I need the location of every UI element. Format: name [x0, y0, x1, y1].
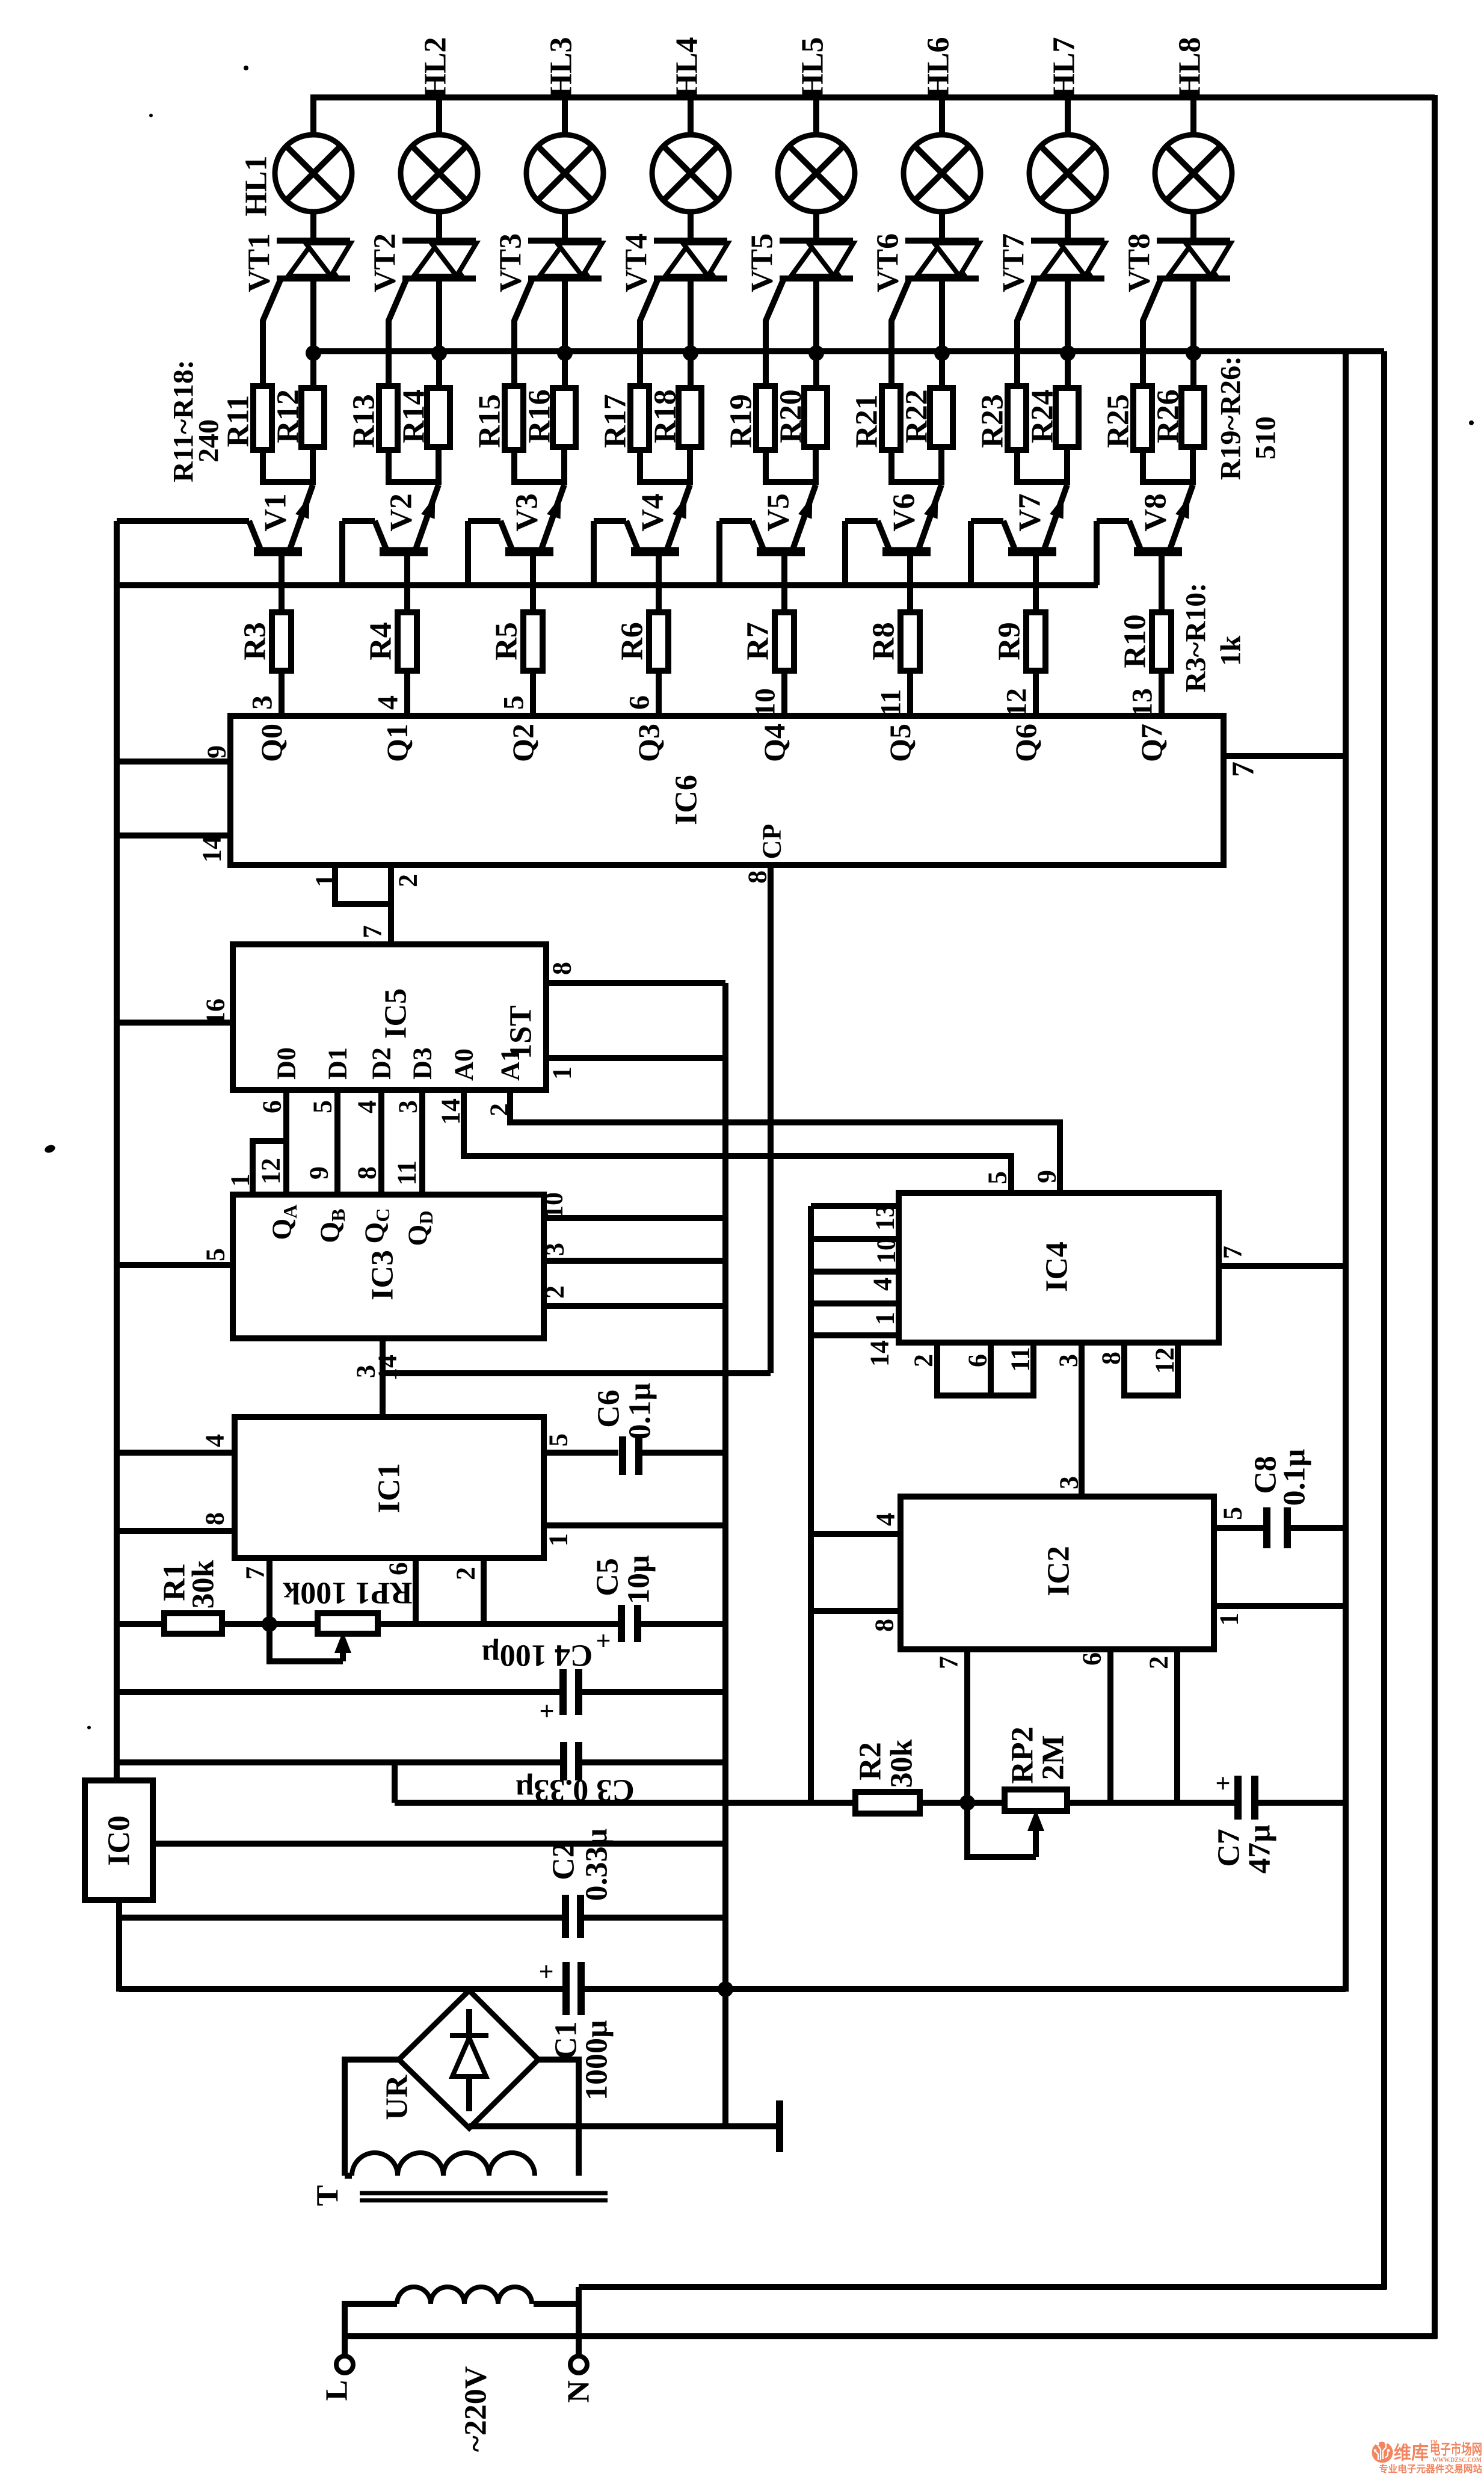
wire IC1 pin5 line — [544, 1450, 618, 1456]
svg-text:12: 12 — [1001, 688, 1033, 717]
wire lamp to triac VT5 — [813, 212, 819, 241]
wire IC4 left stub y2114 — [811, 1269, 899, 1275]
lamp HL7 — [1029, 135, 1106, 212]
wire R22 bottom — [938, 447, 944, 485]
svg-text:4: 4 — [200, 1434, 230, 1447]
wire R26 bottom — [1190, 447, 1196, 485]
svg-text:R3~R10:: R3~R10: — [1180, 583, 1212, 692]
svg-text:R22: R22 — [900, 389, 934, 443]
wire R10 to IC6 pin 13 — [1159, 671, 1165, 717]
svg-text:D1: D1 — [323, 1047, 353, 1080]
wire lamp to triac VT1 — [310, 212, 316, 241]
wire bottom L line — [342, 2333, 1437, 2339]
transformer T primary — [397, 2287, 532, 2304]
wire IC5 D2-pin4 to IC3 — [378, 1090, 384, 1196]
resistor R8 — [901, 612, 920, 671]
speck 1 — [43, 1143, 56, 1154]
watermark logo — [1372, 2441, 1393, 2463]
svg-text:0.1µ: 0.1µ — [623, 1382, 657, 1439]
svg-text:V8: V8 — [1139, 493, 1173, 532]
wire bridge right to secondary — [538, 2060, 579, 2176]
svg-text:VT6: VT6 — [871, 233, 905, 292]
wire C3 to rail — [579, 1759, 725, 1765]
wire IC1 pin4 line — [117, 1450, 235, 1456]
svg-text:R9: R9 — [993, 622, 1027, 660]
svg-text:3: 3 — [540, 1243, 570, 1256]
svg-text:V2: V2 — [384, 493, 419, 532]
svg-text:R23: R23 — [976, 394, 1010, 448]
wire IC5 A1 to IC4 pin9 — [510, 1090, 1060, 1194]
resistor R15 — [505, 386, 523, 450]
wire V1 collector — [117, 518, 249, 524]
svg-text:9: 9 — [304, 1166, 334, 1180]
triac VT5 — [780, 238, 853, 244]
svg-text:RP1 100k: RP1 100k — [283, 1576, 412, 1610]
transistor V1 — [290, 485, 313, 549]
svg-text:C5: C5 — [591, 1558, 625, 1596]
svg-text:TM: TM — [1430, 2439, 1438, 2445]
wire RP2 to C7 — [1067, 1800, 1238, 1806]
svg-text:R20: R20 — [774, 389, 808, 443]
svg-text:R10: R10 — [1118, 614, 1153, 668]
wire IC5 D3-pin3 to IC3 — [419, 1090, 425, 1196]
bridge rectifier UR — [399, 1990, 538, 2128]
wire IC2 pin1 line — [1214, 1603, 1346, 1609]
svg-text:14: 14 — [197, 836, 227, 863]
wire triac cathode bus y584 — [310, 348, 1384, 354]
wire C4 line left — [117, 1689, 563, 1695]
svg-text:2M: 2M — [1036, 1735, 1071, 1780]
wire R1 line — [117, 1621, 164, 1627]
transformer T core — [360, 2191, 608, 2196]
resistor R18 — [679, 388, 701, 447]
wire lamp HL2 stem — [436, 97, 442, 135]
triac VT2 — [402, 238, 476, 244]
wire lamp HL8 stem — [1190, 97, 1196, 135]
wire V7 base — [1033, 552, 1039, 614]
svg-text:8: 8 — [353, 1166, 382, 1180]
svg-text:R18: R18 — [648, 389, 683, 443]
wire right bus1 vertical — [1343, 351, 1349, 1992]
svg-text:IC0: IC0 — [102, 1815, 137, 1866]
svg-text:R14: R14 — [397, 389, 431, 443]
wire lamp to triac VT3 — [562, 212, 568, 241]
wire triac VT1 gate — [263, 277, 282, 389]
wire lamp to triac VT2 — [436, 212, 442, 241]
svg-text:6: 6 — [384, 1562, 413, 1575]
svg-text:5: 5 — [498, 695, 530, 710]
capacitor C8 — [1263, 1507, 1270, 1548]
wire V4 collector — [594, 518, 626, 524]
svg-text:R6: R6 — [615, 622, 650, 660]
speck 4 — [87, 1726, 91, 1729]
svg-text:HL2: HL2 — [419, 37, 453, 97]
svg-text:C7: C7 — [1212, 1829, 1246, 1867]
wire triac VT8 to node — [1190, 278, 1196, 388]
transistor V5 — [793, 485, 816, 549]
IC IC5 box — [233, 944, 546, 1090]
wire IC1 pin6 down — [413, 1558, 419, 1624]
triac VT6 — [905, 238, 979, 244]
wire IC3 pin3 line — [544, 1258, 725, 1264]
svg-text:VT2: VT2 — [368, 233, 402, 292]
svg-text:7: 7 — [358, 925, 387, 938]
svg-text:C4 100µ: C4 100µ — [482, 1639, 593, 1673]
svg-text:Q5: Q5 — [883, 724, 917, 762]
wire lamp HL1 stem — [310, 97, 316, 135]
node branch 8 junction — [1186, 345, 1201, 361]
resistor R2 — [855, 1792, 920, 1814]
wire triac VT7 to node — [1065, 278, 1071, 388]
svg-text:IC2: IC2 — [1042, 1546, 1076, 1596]
svg-text:D2: D2 — [367, 1047, 396, 1080]
svg-text:N: N — [562, 2380, 596, 2403]
wire IC5 pin16 line — [117, 1020, 233, 1026]
svg-text:IC1: IC1 — [372, 1463, 407, 1513]
wire IC2 pin2 down — [1174, 1649, 1180, 1803]
svg-text:8: 8 — [547, 962, 577, 975]
svg-text:VT5: VT5 — [745, 233, 780, 292]
svg-text:D3: D3 — [408, 1047, 437, 1080]
svg-text:R8: R8 — [867, 622, 901, 660]
svg-text:0.1µ: 0.1µ — [1278, 1448, 1312, 1506]
speck 3 — [149, 114, 153, 117]
svg-text:D0: D0 — [272, 1047, 301, 1080]
svg-text:30k: 30k — [186, 1560, 221, 1608]
node junction RP2 — [959, 1795, 975, 1811]
svg-text:L: L — [320, 2380, 354, 2401]
wire V8 collector — [1097, 518, 1129, 524]
svg-text:V4: V4 — [636, 493, 670, 532]
svg-text:A0: A0 — [449, 1048, 479, 1081]
resistor R6 — [649, 612, 668, 671]
wire triac VT5 to node — [813, 278, 819, 388]
wire IC6 pin2 to IC5 pin7 — [388, 865, 394, 946]
wire RP1 to C5 — [378, 1621, 621, 1627]
resistor R1 — [164, 1613, 222, 1634]
wire IC4 pin7 line — [1219, 1263, 1346, 1269]
watermark title — [1394, 2439, 1482, 2463]
wire R1 to RP1 — [222, 1621, 318, 1627]
wire IC6 pin9 line — [117, 759, 230, 765]
svg-text:V7: V7 — [1013, 493, 1047, 532]
lamp HL4 — [652, 135, 729, 212]
transistor V4 — [667, 485, 690, 549]
resistor R7 — [775, 612, 794, 671]
wire triac VT5 gate — [766, 277, 784, 389]
wire collector bus y973 — [117, 582, 1098, 588]
svg-text:R7: R7 — [741, 622, 775, 660]
svg-text:Q2: Q2 — [506, 724, 540, 762]
wire triac VT1 to node — [310, 278, 316, 388]
svg-text:R15: R15 — [473, 394, 507, 448]
wire R6 to IC6 pin 6 — [656, 671, 662, 717]
wire lamp to triac VT6 — [939, 212, 945, 241]
svg-text:3: 3 — [351, 1365, 381, 1378]
svg-text:WWW.DZSC.COM: WWW.DZSC.COM — [1432, 2457, 1482, 2464]
svg-text:R25: R25 — [1101, 394, 1136, 448]
node junction IC1 pin7 RP1 — [262, 1616, 277, 1632]
triac VT4 — [654, 238, 727, 244]
wire IC5 pin1 line — [546, 1055, 725, 1061]
wire CP line to IC1 pin3 — [383, 1370, 771, 1376]
node branch 1 junction — [306, 345, 321, 361]
wire IC3 pin2 line — [544, 1303, 725, 1309]
wire C3 line left — [117, 1759, 564, 1765]
node branch 3 junction — [557, 345, 573, 361]
node junction +V rail x A — [718, 1981, 733, 1997]
wire IC4 left stub y2220 — [811, 1332, 899, 1338]
wire V6 base — [907, 552, 913, 614]
IC IC4 box — [899, 1193, 1219, 1343]
svg-text:HL6: HL6 — [922, 37, 956, 97]
svg-text:1: 1 — [310, 874, 340, 887]
resistor R23 — [1008, 386, 1026, 450]
svg-text:VT1: VT1 — [242, 233, 277, 292]
wire R16 bottom — [561, 447, 567, 485]
svg-text:V6: V6 — [887, 493, 922, 532]
svg-text:7: 7 — [1218, 1246, 1248, 1259]
wire lamp to triac VT7 — [1065, 212, 1071, 241]
potentiometer RP2 — [1005, 1789, 1067, 1811]
resistor R9 — [1026, 612, 1045, 671]
transistor V3 — [541, 485, 564, 549]
svg-text:R21: R21 — [850, 394, 884, 448]
svg-text:1k: 1k — [1215, 635, 1247, 666]
transistor V6 — [919, 485, 941, 549]
wire R18 bottom — [687, 447, 693, 485]
triac VT7 — [1031, 238, 1104, 244]
svg-text:7: 7 — [1227, 762, 1261, 777]
svg-text:R16: R16 — [523, 389, 557, 443]
wire C8 to bus — [1287, 1525, 1346, 1531]
svg-text:11: 11 — [875, 689, 907, 716]
resistor R21 — [882, 386, 901, 450]
wire R11 bottom — [263, 450, 313, 482]
wire triac VT4 gate — [640, 277, 659, 389]
wire bridge left to secondary — [345, 2060, 399, 2176]
wire R8 to IC6 pin 11 — [907, 671, 913, 717]
lamp HL3 — [526, 135, 603, 212]
svg-text:6: 6 — [1077, 1652, 1107, 1666]
IC IC6 box — [230, 716, 1224, 865]
svg-text:A1: A1 — [496, 1048, 525, 1081]
svg-text:11: 11 — [392, 1160, 422, 1186]
transformer T secondary — [352, 2153, 535, 2176]
wire IC5 pin8 line — [546, 980, 725, 986]
svg-text:R2: R2 — [854, 1742, 888, 1780]
svg-text:Q1: Q1 — [380, 724, 414, 762]
lamp HL2 — [401, 135, 478, 212]
wire IC4 pins2-6 bracket — [937, 1343, 991, 1395]
svg-text:13: 13 — [1127, 688, 1159, 717]
svg-text:8: 8 — [870, 1619, 899, 1632]
wire R20 bottom — [813, 447, 819, 485]
svg-text:0.33µ: 0.33µ — [580, 1828, 614, 1901]
resistor R13 — [379, 386, 398, 450]
triac VT1 — [277, 238, 350, 244]
svg-text:Q6: Q6 — [1009, 724, 1042, 762]
wire right bus2 vertical — [1381, 351, 1387, 2289]
transistor V8 — [1170, 485, 1193, 549]
wire C2 line — [119, 1915, 565, 1921]
node branch 6 junction — [934, 345, 950, 361]
capacitor C6 — [619, 1436, 626, 1475]
wire IC1 pin8 line — [117, 1528, 235, 1534]
wire IC4 pin5 up — [1008, 1156, 1014, 1194]
resistor R10 — [1152, 612, 1171, 671]
svg-text:16: 16 — [201, 999, 230, 1025]
wire C3 riser — [392, 1762, 398, 1803]
svg-text:12: 12 — [1150, 1347, 1180, 1374]
svg-text:10: 10 — [750, 688, 781, 717]
svg-text:5: 5 — [1218, 1507, 1248, 1520]
wire IC2 pin6 down — [1107, 1649, 1113, 1803]
svg-text:3: 3 — [1055, 1476, 1084, 1489]
wire IC4 pin3 to IC2 pin3 — [1079, 1343, 1085, 1498]
wire R12 bottom — [310, 447, 316, 485]
svg-text:2: 2 — [393, 874, 423, 887]
svg-text:1: 1 — [1215, 1613, 1244, 1626]
lamp HL6 — [904, 135, 981, 212]
svg-text:8: 8 — [743, 870, 772, 884]
wire triac VT7 gate — [1017, 277, 1036, 389]
capacitor C3 — [560, 1742, 567, 1780]
svg-text:4: 4 — [871, 1513, 901, 1526]
wire V2 collector — [342, 518, 375, 524]
svg-text:V1: V1 — [259, 493, 293, 532]
svg-text:IC6: IC6 — [670, 775, 704, 825]
wire IC2 pin7 down — [964, 1649, 970, 1803]
svg-text:10: 10 — [872, 1237, 901, 1264]
svg-text:2: 2 — [1144, 1656, 1174, 1669]
wire IC4 pins8-12 bracket — [1124, 1343, 1178, 1395]
svg-text:HL1: HL1 — [239, 155, 274, 216]
resistor R22 — [930, 388, 953, 447]
wire V6 collector — [845, 518, 878, 524]
svg-text:+: + — [539, 1697, 554, 1726]
svg-text:2: 2 — [540, 1285, 570, 1299]
svg-text:6: 6 — [257, 1100, 287, 1113]
svg-text:3: 3 — [247, 695, 279, 710]
svg-text:UR: UR — [380, 2074, 414, 2120]
wire C5 to rail — [638, 1621, 725, 1627]
svg-text:5: 5 — [201, 1248, 230, 1261]
wire lamp HL5 stem — [813, 97, 819, 135]
wire R4 to IC6 pin 4 — [404, 671, 410, 717]
capacitor C1 — [562, 1962, 570, 2015]
svg-text:HL5: HL5 — [796, 37, 830, 97]
capacitor C7 — [1234, 1776, 1242, 1820]
svg-text:240: 240 — [193, 419, 225, 463]
svg-text:Q0: Q0 — [254, 724, 288, 762]
capacitor C2 — [562, 1895, 569, 1938]
wire IC4 left stub y2060 — [811, 1236, 899, 1242]
wire IC6 pin7 line — [1224, 753, 1346, 759]
transistor V7 — [1044, 485, 1067, 549]
lamp HL1 — [275, 135, 352, 212]
svg-text:HL7: HL7 — [1047, 37, 1082, 97]
wire IC1 pin1 line — [544, 1522, 725, 1528]
resistor R24 — [1056, 388, 1079, 447]
wire triac VT2 gate — [389, 277, 407, 389]
wire C1 +V line — [119, 1986, 566, 1992]
wire R24 bottom — [1064, 447, 1070, 485]
wire IC1 pin7 down — [266, 1558, 272, 1624]
capacitor C5 — [618, 1605, 625, 1642]
wire V8 base — [1159, 552, 1165, 614]
svg-text:R3: R3 — [238, 622, 272, 660]
svg-text:8: 8 — [200, 1512, 230, 1525]
wire IC1 pin2 down — [481, 1558, 487, 1624]
IC IC2 box — [901, 1497, 1214, 1649]
wire bridge minus line — [466, 2125, 472, 2131]
resistor R5 — [523, 612, 543, 671]
triac VT8 — [1157, 238, 1230, 244]
triac VT3 — [528, 238, 602, 244]
IC IC3 box — [233, 1195, 544, 1338]
wire C2 to rail — [580, 1915, 725, 1921]
wire +V vertical A — [722, 983, 728, 2129]
speck 5 — [1469, 420, 1474, 425]
svg-text:R26: R26 — [1151, 389, 1186, 443]
svg-text:30k: 30k — [885, 1739, 919, 1788]
resistor R19 — [756, 386, 775, 450]
wire lamp to triac VT8 — [1190, 212, 1196, 241]
wire R25 bottom — [1143, 450, 1193, 482]
IC IC1 box — [235, 1417, 544, 1558]
wire R23 bottom — [1017, 450, 1067, 482]
lamp HL8 — [1155, 135, 1232, 212]
svg-text:10µ: 10µ — [622, 1555, 656, 1604]
svg-text:~220V: ~220V — [459, 2366, 493, 2452]
wire IC4 left stub y2167 — [811, 1300, 899, 1306]
svg-text:C6: C6 — [592, 1389, 626, 1428]
svg-text:4: 4 — [353, 1100, 382, 1113]
svg-text:IC4: IC4 — [1040, 1242, 1074, 1292]
svg-text:VT8: VT8 — [1122, 233, 1157, 292]
wire triac VT6 gate — [891, 277, 910, 389]
resistor R11 — [253, 386, 272, 450]
potentiometer RP1 — [318, 1613, 378, 1634]
svg-text:4: 4 — [372, 695, 404, 710]
svg-text:11: 11 — [1006, 1347, 1035, 1372]
wire primary right lead — [534, 2301, 579, 2307]
wire lamp HL4 stem — [688, 97, 694, 135]
wire top AC bus — [310, 94, 1435, 100]
wire triac VT6 to node — [939, 278, 945, 388]
svg-text:R12: R12 — [271, 389, 306, 443]
wire IC2 pin4 line — [811, 1531, 901, 1537]
svg-text:Q3: Q3 — [632, 724, 665, 762]
svg-text:9: 9 — [1032, 1170, 1062, 1183]
wire IC6 pin1 stub — [335, 865, 391, 904]
svg-text:Q7: Q7 — [1135, 724, 1168, 762]
wire IC6 pin8 CP vertical — [768, 865, 774, 1373]
svg-text:+: + — [596, 1626, 611, 1656]
resistor R17 — [630, 386, 649, 450]
node branch 5 junction — [808, 345, 824, 361]
node branch 4 junction — [683, 345, 698, 361]
svg-text:6: 6 — [963, 1354, 993, 1367]
wire IC5 D1-pin5 to IC3 — [334, 1090, 340, 1196]
svg-text:1: 1 — [547, 1066, 577, 1080]
svg-text:V5: V5 — [762, 493, 796, 532]
wire lamp to triac VT4 — [688, 212, 694, 241]
capacitor C4 — [559, 1669, 567, 1715]
wire R7 to IC6 pin 10 — [781, 671, 787, 717]
svg-text:V3: V3 — [510, 493, 544, 532]
